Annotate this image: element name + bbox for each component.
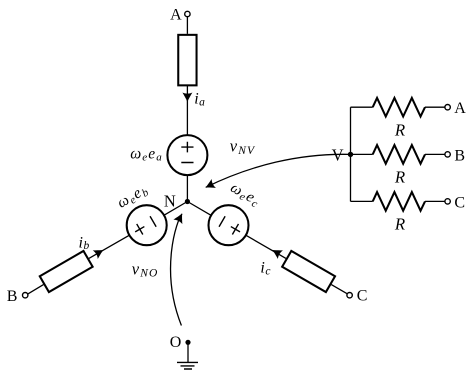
svg-text:ib: ib bbox=[79, 234, 90, 252]
svg-text:B: B bbox=[7, 288, 18, 305]
svg-text:R: R bbox=[394, 215, 405, 234]
svg-text:A: A bbox=[170, 6, 182, 23]
svg-text:vNV: vNV bbox=[230, 137, 256, 158]
svg-text:R: R bbox=[394, 168, 405, 187]
svg-text:V: V bbox=[332, 146, 344, 165]
svg-text:A: A bbox=[454, 100, 466, 117]
svg-text:C: C bbox=[357, 287, 368, 304]
svg-text:O: O bbox=[170, 334, 182, 351]
svg-text:ic: ic bbox=[260, 260, 271, 278]
svg-text:vNO: vNO bbox=[132, 260, 159, 280]
svg-text:N: N bbox=[164, 192, 176, 211]
svg-text:ia: ia bbox=[194, 91, 205, 109]
svg-text:B: B bbox=[454, 147, 465, 164]
svg-text:ωeea: ωeea bbox=[130, 145, 163, 163]
svg-text:R: R bbox=[394, 120, 405, 139]
svg-text:C: C bbox=[454, 194, 465, 211]
